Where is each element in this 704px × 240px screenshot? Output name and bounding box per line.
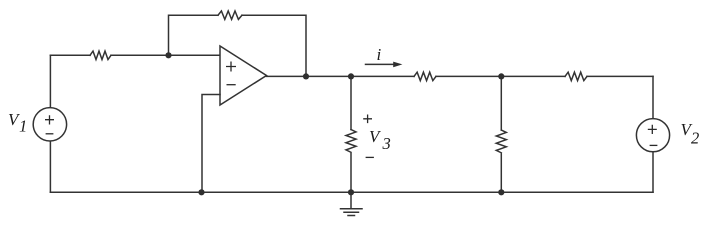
svg-text:1: 1 bbox=[19, 117, 27, 136]
svg-text:i: i bbox=[377, 45, 382, 64]
svg-text:3: 3 bbox=[382, 134, 391, 153]
svg-text:2: 2 bbox=[691, 129, 699, 148]
svg-text:V: V bbox=[369, 127, 382, 146]
